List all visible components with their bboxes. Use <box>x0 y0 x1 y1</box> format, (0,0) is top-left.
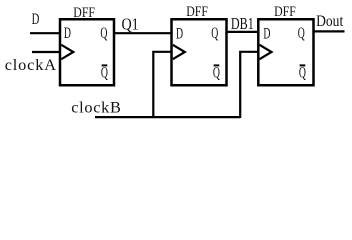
svg-text:Q: Q <box>298 24 306 42</box>
svg-text:D: D <box>176 24 183 42</box>
svg-text:DFF: DFF <box>73 4 95 21</box>
svg-text:clockB: clockB <box>71 97 121 116</box>
svg-text:Q: Q <box>211 24 219 42</box>
svg-text:DFF: DFF <box>274 3 296 20</box>
svg-text:Q: Q <box>213 63 221 81</box>
svg-text:clockA: clockA <box>5 55 57 74</box>
svg-text:Q: Q <box>101 63 109 81</box>
svg-text:D: D <box>64 24 71 42</box>
svg-text:DFF: DFF <box>186 3 208 20</box>
svg-text:Dout: Dout <box>316 13 343 30</box>
svg-text:D: D <box>32 10 40 27</box>
svg-text:Q: Q <box>299 63 307 81</box>
svg-text:DB1: DB1 <box>231 15 254 33</box>
svg-text:Q: Q <box>100 24 108 42</box>
svg-text:D: D <box>263 24 270 42</box>
svg-text:Q1: Q1 <box>122 15 139 34</box>
